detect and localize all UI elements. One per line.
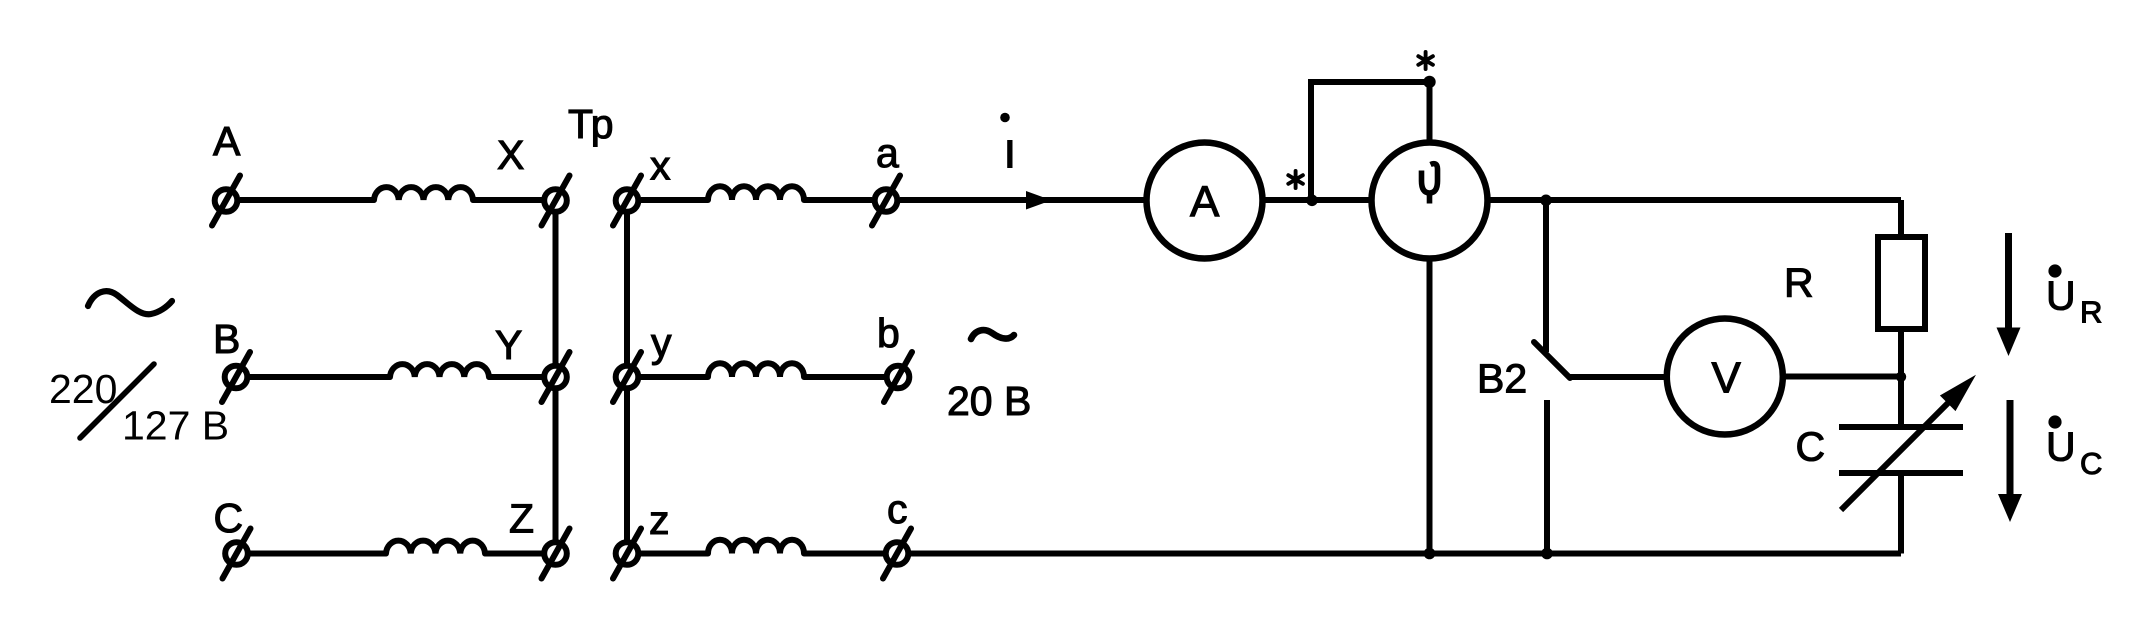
polarity asterisk at junction [1288,171,1303,188]
svg-text:X: X [497,132,524,178]
terminal a [872,176,900,226]
current arrow on wire [1026,191,1052,210]
slash of 220/127 [80,364,154,438]
wattmeter current-coil bridge [1311,82,1430,200]
winding primary A-X [374,187,473,200]
bottom return bus [911,551,1901,557]
svg-text:R: R [2080,295,2102,330]
capacitor C top plate [1839,424,1963,430]
wire z to coil [641,551,708,557]
voltmeter U3 circle [1667,319,1783,435]
polarity asterisk at bridge top [1418,52,1433,69]
wattmeter voltage lead down [1427,259,1433,554]
winding primary B-Y [390,364,489,377]
svg-text:U: U [2046,273,2076,319]
svg-text:20 В: 20 В [947,378,1031,424]
wire coil to Z [485,551,545,557]
svg-text:Тр: Тр [568,101,614,147]
wire capacitor to bottom bus [1898,476,1904,554]
svg-text:R: R [1784,260,1814,306]
wire coil to X [473,197,545,203]
voltage label 220/127 В [49,366,229,449]
svg-text:C: C [2080,446,2102,481]
winding secondary y-b [708,363,804,377]
svg-text:V: V [1712,354,1742,403]
wire coil to a [804,197,872,203]
winding primary C-Z [386,541,485,554]
U_C arrow [2007,400,2014,499]
wire phase B [250,374,390,380]
U_R label dot [2048,264,2061,277]
terminal C [223,529,251,579]
wire resistor to node [1898,332,1904,424]
terminal Z [542,529,570,579]
ammeter U1 circle [1147,143,1263,259]
U_C label dot [2048,415,2061,428]
switch B2 blade [1534,342,1570,378]
svg-text:z: z [649,497,670,543]
bridge corner dot [1423,76,1435,88]
svg-text:y: y [651,320,672,366]
svg-text:В2: В2 [1477,356,1527,402]
secondary source symbol ~ [971,330,1014,339]
wire blade to voltmeter [1570,374,1668,380]
terminal B [222,352,250,402]
terminal Y [542,352,570,402]
svg-text:c: c [887,486,908,532]
terminal X [542,176,570,226]
terminal y [613,352,641,402]
junction dot switch bottom [1541,548,1553,560]
svg-text:C: C [1796,424,1826,470]
wire y to coil [641,374,708,380]
wire coil to c [804,551,883,557]
wattmeter phi symbol [1422,164,1438,204]
wire node to resistor [1898,200,1904,237]
terminal z [613,529,641,579]
svg-text:A: A [1190,178,1220,227]
current label dot [1000,113,1010,123]
terminal x [613,176,641,226]
wire coil to b [804,374,884,380]
switch B2 upper contact [1543,200,1549,352]
primary star bus X-Y-Z [553,200,559,554]
svg-text:B: B [213,316,240,362]
wire x to coil [641,197,708,203]
svg-text:220: 220 [49,366,117,412]
wire phase C [250,551,386,557]
switch B2 lower contact [1544,400,1550,554]
terminal c [883,529,911,579]
svg-text:C: C [214,495,244,541]
terminal b [884,352,912,402]
AC source symbol ~ [88,291,172,314]
svg-text:Y: Y [495,322,522,368]
current label I [1007,140,1012,168]
svg-text:A: A [213,118,241,164]
resistor R body [1878,237,1925,329]
svg-text:x: x [650,143,671,189]
capacitor variable arrow [1841,399,1952,510]
wire voltmeter to R-C node [1783,374,1901,380]
junction dot at switch branch [1540,195,1552,207]
wattmeter U2 circle [1372,143,1488,259]
terminal A [212,176,240,226]
wire ammeter to wattmeter [1263,197,1373,203]
U_R arrow [2005,233,2012,332]
junction dot after ammeter [1306,195,1318,207]
secondary star bus x-y-z [624,200,630,554]
svg-text:a: a [876,130,899,176]
wire coil to Y [489,374,545,380]
junction dot R-C node [1896,372,1906,382]
svg-text:Z: Z [509,496,534,542]
winding secondary x-a [708,186,804,200]
wire phase A [240,197,374,203]
svg-text:U: U [2046,424,2076,470]
capacitor C bottom plate [1839,470,1963,476]
svg-text:127 В: 127 В [122,403,229,449]
junction dot wattmeter bottom [1424,548,1436,560]
wire wattmeter to load node [1488,197,1902,203]
wire a to ammeter [900,197,1148,203]
winding secondary z-c [708,540,804,554]
svg-text:b: b [877,310,900,356]
